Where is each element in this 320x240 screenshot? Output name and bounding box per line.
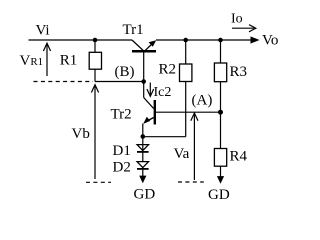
wire dashed reference line bottom left (86, 181, 111, 183)
wire R1 top lead (94, 40, 96, 52)
svg-text:R4: R4 (230, 149, 248, 165)
wire Tr2 base lead to node A (156, 111, 221, 113)
transistor Tr1 (132, 40, 156, 51)
wire R2 top lead (185, 40, 187, 64)
wire dashed reference line bottom right (178, 181, 204, 183)
resistor R3 (214, 63, 226, 82)
svg-text:Io: Io (231, 12, 243, 27)
svg-text:GD: GD (134, 186, 156, 202)
svg-text:Va: Va (174, 146, 190, 162)
ground GD left arrow (139, 169, 146, 184)
svg-text:VR1: VR1 (20, 53, 44, 69)
arrow VR1 measurement (43, 43, 50, 76)
wire top rail left (Vi to Tr1 collector) (29, 39, 133, 41)
diode D1 (137, 145, 149, 152)
node Tr2 emitter junction dot (141, 134, 146, 139)
svg-text:Tr1: Tr1 (123, 22, 144, 38)
arrow Io (232, 25, 256, 32)
svg-text:(A): (A) (192, 93, 213, 109)
resistor R4 (214, 149, 226, 167)
resistor R1 (89, 52, 101, 69)
svg-text:D2: D2 (113, 160, 131, 176)
svg-text:D1: D1 (113, 143, 131, 159)
diode D2 (137, 162, 149, 169)
svg-text:R3: R3 (230, 64, 248, 80)
ground GD right arrow (217, 166, 224, 184)
wire D1 to D2 (142, 137, 144, 162)
wire R2 bottom lead down (185, 82, 187, 137)
svg-text:R2: R2 (159, 62, 177, 78)
arrow Va measurement (191, 113, 198, 180)
svg-text:R1: R1 (60, 53, 78, 69)
wire node A to R4 top (220, 112, 222, 148)
node A junction dot (218, 110, 223, 115)
transistor Tr2 (143, 82, 155, 137)
node junction dot R3 top (218, 38, 223, 43)
resistor R2 (180, 64, 192, 82)
wire R1 bottom lead (94, 69, 96, 81)
node Vo output arrow (251, 36, 260, 43)
wire top rail right (Tr1 emitter to Vo arrow) (156, 39, 252, 41)
svg-text:Vb: Vb (72, 126, 90, 142)
wire node B horizontal (95, 81, 144, 83)
arrow Vb measurement (91, 85, 98, 179)
wire R3 top lead (220, 40, 222, 63)
svg-text:GD: GD (208, 187, 230, 203)
svg-text:(B): (B) (115, 64, 135, 80)
node junction dot Vi rail / R1 top (93, 38, 98, 43)
wire R2 bottom to Tr2 emitter node (143, 136, 186, 138)
wire Tr1 base lead down to node B (143, 52, 145, 82)
wire R3 bottom to node A (220, 82, 222, 113)
arrow Ic2 annotation (147, 83, 154, 97)
wire dashed reference line left (34, 81, 94, 83)
svg-text:Vi: Vi (36, 23, 50, 39)
node junction dot R2 top (183, 38, 188, 43)
svg-text:Vo: Vo (262, 33, 278, 49)
svg-text:Tr2: Tr2 (111, 107, 132, 123)
node B junction dot (141, 79, 146, 84)
svg-text:Ic2: Ic2 (154, 85, 172, 100)
